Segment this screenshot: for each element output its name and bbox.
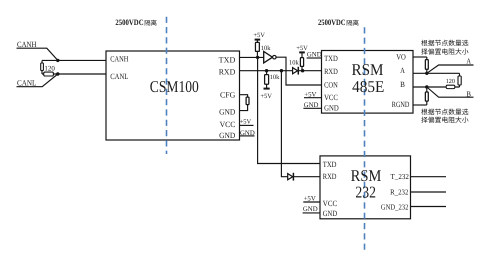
wire VO corner down (426, 57, 428, 60)
isolation barrier dashed line right (2500VDC) (364, 27, 366, 252)
IC U1 CSM100 CAN module body (106, 51, 240, 140)
svg-text:2500VDC: 2500VDC (318, 18, 346, 27)
wire RXD branch down to diode D2 (281, 71, 287, 177)
junction RXD / RSM232 branch (280, 69, 283, 72)
wire bias upper to A (426, 69, 428, 73)
junction B / bias network (425, 85, 428, 88)
wire B flag lead (427, 87, 474, 97)
junction CANH / termination (56, 59, 59, 62)
isolation barrier dashed line left (2500VDC) (166, 17, 168, 154)
svg-text:+5V: +5V (253, 32, 265, 39)
wire U1 RXD to U2 RXD pin (240, 70, 322, 72)
resistor 120 left termination body (horizontal) (44, 72, 54, 76)
wire GND stub to U2 TXD pin (307, 57, 322, 59)
resistor bias lower body (B to RGND) (425, 92, 428, 101)
wire bias lower to RGND (426, 101, 428, 105)
svg-text:B: B (400, 80, 405, 89)
wire left termination vertical (41, 60, 43, 74)
svg-text:+5V: +5V (304, 195, 316, 202)
svg-text:VCC: VCC (324, 93, 338, 102)
svg-text:T_232: T_232 (391, 172, 410, 181)
svg-text:RXD: RXD (323, 172, 337, 181)
caption choose bias resistor (top) line 1 (421, 40, 468, 46)
junction CANL / termination (56, 72, 59, 75)
svg-text:TXD: TXD (323, 160, 337, 169)
IC U3 RSM232 transceiver body (320, 156, 411, 219)
wire CANL to CSM100 CANL pin (42, 73, 106, 75)
wire CANH to CSM100 CANH pin (42, 59, 106, 61)
svg-text:CON: CON (324, 80, 338, 89)
diode D1 on RXD line (293, 67, 299, 75)
svg-text:CANH: CANH (110, 55, 128, 64)
caption choose bias resistor (top) line 2 (421, 48, 468, 54)
wire R pull-up TXD to TXD net (256, 51, 258, 57)
wire +5V to R pull-up U2 RXD (301, 52, 303, 57)
svg-text:TXD: TXD (219, 55, 236, 64)
resistor 10k pull-up TXD body (255, 42, 259, 51)
svg-text:R_232: R_232 (390, 187, 408, 196)
wire CANL flag lead (17, 74, 58, 87)
diode D2 to U3 RXD (288, 173, 294, 181)
wire +5V stub to U2 VCC (304, 97, 322, 99)
svg-text:RSM: RSM (352, 60, 384, 79)
svg-text:CANL: CANL (110, 72, 128, 81)
wire U3 T_232 output (411, 176, 447, 178)
resistor 10k on RXD body (265, 75, 269, 85)
resistor 120 right termination body (horizontal) (446, 85, 455, 88)
caption 2500VDC isolation right (318, 18, 359, 27)
svg-text:+5V: +5V (240, 119, 252, 126)
svg-text:+5V: +5V (260, 93, 272, 100)
svg-text:GND: GND (324, 103, 339, 112)
wire +5V stub to U3 VCC (303, 201, 320, 203)
svg-text:CFG: CFG (220, 90, 236, 99)
svg-text:RXD: RXD (324, 67, 338, 76)
junction TXD / pull-up / RSM232 branch (256, 56, 259, 59)
svg-text:10k: 10k (289, 59, 300, 66)
wire R 10k lower to +5V (266, 84, 268, 88)
wire diode D2 to U3 RXD pin (294, 176, 320, 178)
svg-text:GND: GND (303, 206, 318, 213)
resistor 10k pull-up U2 RXD body (300, 58, 303, 67)
wire U2 B to termination corner (413, 86, 460, 88)
caption choose bias resistor (bottom) line 1 (421, 109, 468, 115)
caption 2500VDC isolation left (115, 18, 156, 27)
svg-text:120: 120 (44, 65, 55, 73)
svg-text:10k: 10k (261, 45, 272, 52)
wire CANH flag lead (17, 48, 58, 60)
resistor CFG pull-down body (246, 97, 249, 105)
wire U1 TXD to inverter input (240, 56, 264, 58)
svg-text:GND: GND (219, 131, 235, 140)
wire TXD branch down to U3 TXD pin (258, 57, 320, 163)
svg-text:VO: VO (396, 53, 406, 62)
svg-text:A: A (400, 66, 405, 75)
svg-text:2500VDC: 2500VDC (115, 18, 143, 27)
junction RXD / 10k resistor (265, 69, 268, 72)
svg-text:VCC: VCC (220, 120, 236, 129)
svg-text:B: B (466, 89, 471, 98)
power symbol +5V below R 10k RXD (260, 89, 272, 101)
power symbol +5V above R pull-up U2 RXD (296, 45, 308, 53)
resistor bias upper body (VO to A) (425, 60, 428, 70)
wire +5V stub to U1 VCC (240, 124, 254, 126)
svg-text:RXD: RXD (219, 68, 236, 77)
resistor 120 left termination body (vertical) (41, 63, 44, 71)
IC U2 RSM485E transceiver body (322, 51, 414, 114)
wire RXD to R 10k lower (266, 71, 268, 75)
wire U2 VO stub (413, 56, 427, 58)
wire CFG pin to resistor bracket (240, 95, 248, 111)
resistor 120 right termination body (vertical) (458, 76, 461, 85)
svg-text:A: A (466, 56, 471, 65)
svg-text:RGND: RGND (392, 100, 410, 109)
caption choose bias resistor (bottom) line 2 (421, 117, 468, 123)
svg-text:485E: 485E (352, 77, 384, 96)
wire A flag lead (427, 65, 474, 73)
wire right termination vertical (459, 73, 461, 87)
junction A / bias network (425, 72, 428, 75)
svg-text:CSM100: CSM100 (150, 77, 199, 96)
wire B corner down (426, 87, 428, 92)
wire GND stub to U3 GND (303, 212, 320, 214)
inverter gate on TXD line (264, 52, 276, 63)
wire GND stub to U1 GND2 (240, 135, 255, 137)
svg-text:CANH: CANH (17, 40, 37, 49)
wire +5V to R pull-up TXD (256, 40, 258, 43)
junction RXD / pull-up at U2 (301, 69, 304, 72)
wire GND stub to U2 GND (303, 107, 321, 109)
svg-text:GND: GND (219, 107, 235, 116)
wire U2 A to termination corner (413, 72, 460, 74)
svg-text:VCC: VCC (323, 199, 337, 208)
wire U2 RGND stub (413, 104, 427, 106)
svg-text:TXD: TXD (324, 54, 338, 63)
wire R pull-up to RXD net (301, 66, 303, 70)
wire U3 GND_232 output (411, 206, 447, 208)
svg-text:232: 232 (355, 182, 376, 201)
power symbol +5V above R pull-up TXD (253, 32, 265, 40)
wire U3 R_232 output (411, 191, 447, 193)
wire inverter output to U2 CON pin (276, 57, 321, 85)
svg-text:GND_232: GND_232 (381, 202, 409, 211)
svg-text:GND: GND (323, 209, 337, 218)
svg-text:10k: 10k (270, 74, 281, 81)
svg-text:120: 120 (446, 78, 455, 85)
